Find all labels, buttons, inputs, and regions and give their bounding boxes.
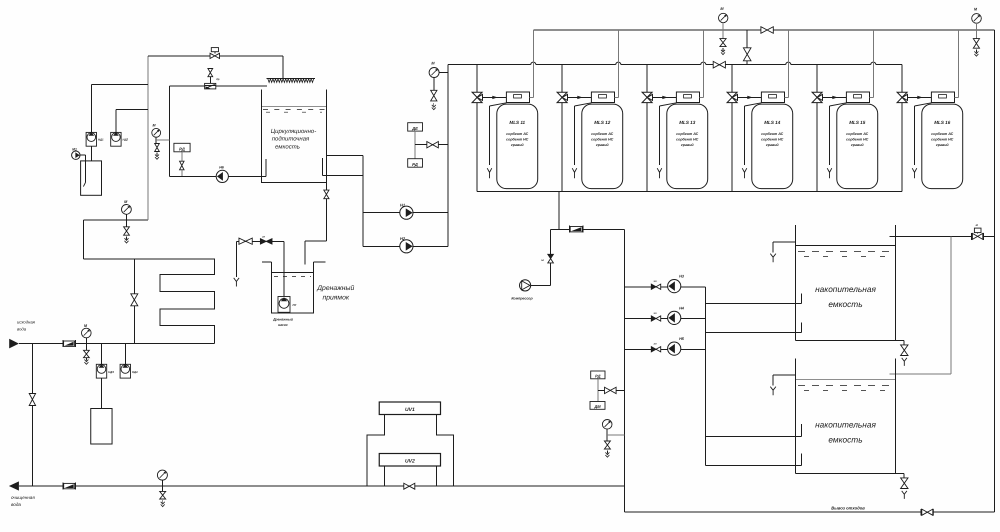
svg-text:др: др [216,78,220,81]
valve on feed manifold [713,61,725,68]
svg-text:MLS 11: MLS 11 [509,120,525,125]
pressure gauge on outlet line [157,470,167,486]
filter vessel MLS 12 control head [591,92,614,103]
wire: H6 riser x=169.3 [168,86,170,176]
svg-text:MLS 13: MLS 13 [679,120,696,125]
wire: H2 suction/discharge line [363,245,448,247]
wire: branch to dosing pump ND3 [101,344,103,365]
water level in circulation tank [262,106,326,112]
svg-text:UV2: UV2 [405,458,415,464]
svg-text:эл: эл [262,236,265,239]
wire: storage tank 2 inlet stub lower [706,454,802,466]
wire: tank bottom drain [325,182,327,190]
label: Циркуляционно-подпиточная емкость [271,128,316,151]
filter vessel MLS 12 body [582,104,623,189]
sensor DE box [408,123,423,131]
transfer pump Н3 [668,275,685,293]
dosing pump ND3 [96,364,114,378]
valve on top header [761,27,773,34]
solenoid valve before pump Н4 [651,312,660,321]
svg-text:НД2: НД2 [123,138,129,142]
svg-text:емкость: емкость [828,299,862,309]
wire: riser from MLS 14 head to top header [785,30,789,97]
wire: H1 suction/discharge line [363,211,448,213]
wire: treated water top header y=30 [533,29,994,31]
water level in storage tank 2 [796,380,895,391]
mixer pump M1 [72,147,80,159]
drain valve below PD gauge [155,144,160,160]
svg-text:ДЕ: ДЕ [411,126,418,131]
wire: dip tube and strainer of MLS 11 [487,103,506,178]
filter vessel MLS 16 body [922,104,963,189]
wire: MLS 15 valve drop to bottom collector [816,103,818,192]
drain valve below dosing node gauge [124,227,130,243]
feed pump H1 [400,203,413,220]
wire: serpentine contact coil [84,259,215,344]
solenoid valve on compressor riser [541,254,553,263]
wire: riser from MLS 11 head to top header [530,30,534,97]
wire: drop into storage tank 2 [890,236,952,374]
wire: tank 1 outlet line y=236.4 [890,235,995,237]
wire: transfer pump line Н3 [624,286,705,288]
svg-text:М1: М1 [72,147,77,151]
wire: drain route into pit [305,199,326,265]
vessel: storage tank 2 [796,359,904,474]
svg-text:исходная: исходная [17,320,36,325]
svg-text:Дренажный: Дренажный [316,284,354,292]
filter vessel MLS 16 control head [931,92,954,103]
dosing pump ND4 [120,364,138,378]
pressure gauge M on inlet line [82,324,92,344]
valve on tank bottom drain [324,190,329,199]
svg-text:накопительная: накопительная [815,420,876,430]
overflow of storage tank 2 [770,375,795,395]
svg-text:гравий: гравий [936,143,949,147]
water level in drain pit [272,272,313,276]
valve on RD3 tee [605,387,617,393]
svg-text:емкость: емкость [275,144,300,150]
label: MLS 15 and media [846,120,869,147]
wire: tank feed line y=55.8 [148,56,283,79]
transfer pump Н4 [668,306,685,324]
svg-text:сорбент НС: сорбент НС [676,138,699,142]
vessel: drain pit [262,262,325,313]
valve below RD1 [180,152,185,177]
wire: MLS 14 valve drop to bottom collector [731,103,733,192]
pressure gauge M on top header (center) [719,7,728,39]
check valve on inlet line [63,340,76,347]
wire: transfer pump discharge header x=705.5 [705,287,707,466]
wire: inlet-outlet bypass x=32.4 [31,344,33,487]
check valve on outlet line [63,483,76,490]
pressure gauge M on top header (right) [972,7,982,38]
wire: M1 discharge dip pipe into tank [80,155,86,186]
wire: filters bottom collector y=191.4 [477,190,902,192]
wire: MLS 16 valve drop to bottom collector [901,103,903,192]
label: MLS 13 and media [676,120,699,147]
sprinkler comb over circulation tank [267,79,316,83]
svg-text:РД: РД [595,374,601,379]
svg-text:вода: вода [17,327,27,332]
label: накопительная емкость (tank 1) [815,284,876,309]
label: исходная вода [17,320,36,332]
solenoid valve on H7 discharge [260,236,272,245]
pressure gauge M at pressure switch [152,124,170,144]
svg-text:сорбент НС: сорбент НС [761,138,784,142]
svg-text:НД1: НД1 [98,138,104,142]
pressure gauge M on dosing node line [122,200,132,227]
svg-text:приямок: приямок [323,295,350,302]
svg-text:вода: вода [11,502,21,507]
wire: storage tank 2 inlet stub upper [706,424,802,437]
svg-text:гравий: гравий [596,143,609,147]
dosing pump ND1 [86,132,104,146]
wire: valve to head with flow arrow [823,96,847,99]
filter vessel MLS 15 control head [846,92,869,103]
svg-text:Н2: Н2 [400,236,406,241]
svg-text:MLS 15: MLS 15 [849,120,866,125]
UV unit 1 [379,402,440,415]
svg-text:MLS 12: MLS 12 [594,120,611,125]
svg-text:эл: эл [653,343,656,346]
label: Дренажный приямок [316,284,354,302]
label: MLS 11 and media [506,120,529,147]
valve on serpentine bypass [131,294,138,306]
wire: valve to head with flow arrow [568,96,592,99]
wire: air line y=229.6 [550,229,624,231]
wire: filter feed manifold y=64.7 [448,62,902,65]
svg-text:эл: эл [653,312,656,315]
label: очищенная вода [11,495,35,507]
svg-text:Н7: Н7 [293,303,297,307]
svg-text:Циркуляционно-: Циркуляционно- [271,128,316,135]
valve on instrument tee [427,142,439,148]
wire: collector drop to air/transfer node [558,191,560,229]
water level in storage tank 1 [796,246,895,257]
svg-text:Вывоз отходов: Вывоз отходов [831,506,865,511]
wire: instrument stem with valve tee [598,379,624,402]
svg-text:сорбент АС: сорбент АС [931,132,953,136]
pressure switch RD2 box [408,159,423,168]
wire: injection line from dosing pump ND2 [116,109,148,132]
valve on bypass [29,394,35,406]
drain valve of storage tank 1 [901,340,908,366]
wire: transfer pump line Н5 [624,348,705,350]
svg-text:сорбент НС: сорбент НС [591,138,614,142]
svg-text:сорбент НС: сорбент НС [846,138,869,142]
pressure gauge M on discharge riser [429,62,448,90]
svg-text:сорбент АС: сорбент АС [591,132,613,136]
wire: valve to head with flow arrow [738,96,762,99]
svg-text:НД3: НД3 [108,370,114,374]
svg-text:гравий: гравий [681,143,694,147]
wire: pump suction header x=362.9 [362,155,364,246]
svg-text:сорбент АС: сорбент АС [676,132,698,136]
three-way valve for MLS 12 [557,65,567,103]
solenoid valve before pump Н5 [651,343,660,352]
svg-text:гравий: гравий [851,143,864,147]
wire: MLS 13 valve drop to bottom collector [646,103,648,192]
wire: serpentine bypass [133,259,135,344]
bypass valve under UV2 [404,483,415,489]
wire: ND3 suction from chemical tank [101,378,103,408]
svg-text:сорбент АС: сорбент АС [506,132,528,136]
wire: H6 suction line y=176.4 [169,175,261,177]
svg-text:РД: РД [179,146,185,151]
wire: pump discharge riser x=447.9 [447,65,449,247]
wire: MLS 11 valve drop to bottom collector [476,103,478,192]
wire: dip tube and strainer of MLS 12 [572,103,591,178]
label: Дренажный насос [272,317,294,327]
wire: ND1 suction from chemical tank [91,146,93,161]
transfer pump Н5 [668,337,685,355]
svg-text:сорбент НС: сорбент НС [931,138,954,142]
svg-text:сорбент АС: сорбент АС [846,132,868,136]
wire: disposal line y=512 [624,511,994,513]
wire: dip tube and strainer of MLS 14 [742,103,761,178]
svg-text:эл: эл [541,259,544,262]
three-way valve for MLS 11 [472,65,482,103]
three-way valve for MLS 16 [897,65,907,103]
wire: storage tank 1 inlet stub upper [706,294,802,304]
three-way valve for MLS 14 [727,65,737,103]
wire: MLS 12 valve drop to bottom collector [561,103,563,192]
svg-text:НД4: НД4 [132,370,138,374]
label: MLS 16 and media [931,120,954,147]
label: вывоз отходов [831,506,865,511]
wire: discharge drop to drain funnel [235,241,237,277]
motorized valve on tank feed line [210,48,220,59]
wire: riser from MLS 13 head to top header [700,30,704,97]
wire: treated water outlet line y=486 [19,485,624,487]
filter vessel MLS 15 body [837,104,878,189]
pressure switch RD3 box [591,371,605,379]
valve on disposal line [921,509,934,515]
svg-text:Дренажный: Дренажный [272,317,294,321]
wire: H7 discharge [236,241,284,296]
svg-text:Компрессор: Компрессор [511,297,533,301]
node: treated water outlet arrow [9,481,19,490]
filter vessel MLS 14 control head [761,92,784,103]
circulation pump H6 [216,166,228,183]
compressor [511,280,550,301]
wire: main dosing riser x=148 [147,56,149,220]
drainage pump H7 (submersible) [278,297,297,313]
wire: valve to head with flow arrow [653,96,677,99]
svg-text:очищенная: очищенная [11,495,35,500]
wire: tank outlet upper y=155.3 [326,154,363,156]
overflow of storage tank 1 [770,242,795,262]
svg-text:гравий: гравий [766,143,779,147]
label: MLS 12 and media [591,120,614,147]
wire: main transfer riser x=624.25 [623,230,625,512]
wire: riser from MLS 12 head to top header [615,30,619,97]
svg-text:гравий: гравий [511,143,524,147]
wire: dip tube and strainer of MLS 16 [912,103,931,178]
svg-text:подпиточная: подпиточная [272,136,310,143]
wire: dip tube and strainer of MLS 13 [657,103,676,178]
chemical solution tank (upper) [81,161,102,195]
svg-text:MLS 14: MLS 14 [764,120,781,125]
drain valve below outlet gauge [160,486,166,507]
three-way valve for MLS 13 [642,65,652,103]
node: raw water inlet arrow [9,339,19,349]
vent valve above fill-line check valve [208,69,220,84]
manual valve on H7 discharge [239,238,252,244]
drain valve of storage tank 2 [901,474,908,499]
chemical solution tank (lower) [91,409,112,445]
wire: H6 fill line into tank y=85.9 [169,85,267,87]
wire: valve to head with flow arrow [483,96,507,99]
svg-text:накопительная: накопительная [815,284,876,294]
svg-text:насос: насос [278,323,288,327]
wire: inlet main line y=343.5 [19,343,215,345]
check valve on fill line [205,83,216,89]
UV unit 2 [379,454,440,467]
drain valve below inlet gauge [84,344,90,365]
svg-text:MLS 16: MLS 16 [934,120,951,125]
motorized valve on tank 1 outlet [972,223,984,240]
wire: riser from serpentine to dosing node [84,220,148,259]
wire: instrument stem [415,131,448,159]
drain valve below transfer gauge [604,441,610,457]
svg-text:сорбент НС: сорбент НС [506,138,529,142]
svg-text:емкость: емкость [828,435,862,445]
solenoid valve before pump Н3 [651,280,660,289]
vessel: storage tank 1 [796,225,904,340]
wire: UV2 risers [385,466,437,486]
svg-text:Н1: Н1 [400,203,406,208]
pressure switch RD1 [174,143,190,152]
label: накопительная емкость (tank 2) [815,420,876,445]
svg-text:РД: РД [412,162,418,167]
sensor DM box [590,402,605,410]
wire: dip tube and strainer of MLS 15 [827,103,846,178]
check valve on air line [569,226,583,233]
internal suction stub left in circulation tank [262,159,266,176]
wire: branch to dosing pump ND4 [125,344,127,365]
wire: riser from MLS 15 head to top header [870,30,874,97]
filter vessel MLS 14 body [752,104,793,189]
filter vessel MLS 11 control head [506,92,529,103]
wire: right collector x=994.5 [994,30,996,512]
wire: valve to head with flow arrow [908,96,932,99]
svg-text:ДМ: ДМ [593,404,601,409]
wire: transfer pump line Н4 [624,318,705,320]
valve on cross-connection [743,48,751,61]
svg-text:сорбент АС: сорбент АС [761,132,783,136]
drain valve below right header gauge [973,39,979,57]
label: MLS 14 and media [761,120,784,147]
svg-text:эл: эл [653,280,656,283]
drain valve below center header gauge [720,39,726,55]
drain funnel Y [234,278,239,287]
wire: UV1 piping loop [367,415,453,487]
vessel: circulation make-up tank [262,90,327,183]
pressure gauge on transfer riser [602,420,624,442]
feed pump H2 [400,236,413,253]
svg-text:UV1: UV1 [405,407,415,413]
filter vessel MLS 11 body [497,104,538,189]
dosing pump ND2 [111,132,129,146]
wire: storage tank 1 inlet stub lower [706,322,802,332]
wire: riser from MLS 16 head to top header [955,30,959,97]
filter vessel MLS 13 control head [676,92,699,103]
three-way valve for MLS 15 [812,65,822,103]
drain valve below discharge gauge [431,90,437,109]
wire: injection line from dosing pump ND1 [92,84,148,132]
wire: tank outlet lower y=175.7 [323,175,363,177]
wire: cross-connection between headers [746,30,748,65]
wire: compressor riser [549,230,551,286]
internal suction stub right in circulation tank [322,158,324,176]
filter vessel MLS 13 body [667,104,708,189]
